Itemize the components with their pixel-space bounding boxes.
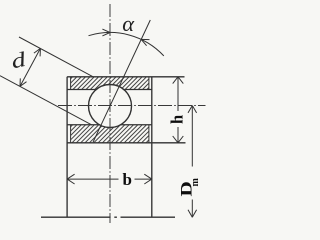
arc arrow at centerline [102, 29, 110, 32]
Dm dimension line lower [191, 200, 193, 218]
inner ring hatching [71, 125, 149, 143]
Dm dimension line upper [191, 106, 193, 167]
bearing outline top edge + h extension [67, 76, 184, 78]
h dimension line [177, 77, 179, 111]
axis centerline [41, 216, 111, 218]
ball diameter tangent line upper [19, 37, 93, 77]
arc arrow at contact line [141, 39, 146, 45]
left edge extended to axis [66, 77, 68, 217]
b arrow right [144, 174, 152, 179]
inner ring raceway line [67, 124, 152, 126]
svg-text:α: α [122, 11, 135, 36]
ball [89, 85, 132, 128]
b arrow left [67, 179, 75, 184]
outer ring face lines [70, 77, 72, 90]
outer ring raceway line [67, 89, 152, 91]
bearing outline bottom edge + h extension [67, 142, 185, 144]
Dm arrow up [188, 106, 192, 113]
outer ring hatching [71, 77, 149, 90]
angle dimension arc [89, 32, 164, 55]
horizontal centerline [58, 105, 206, 107]
d dimension arrow [20, 48, 40, 86]
svg-text:h: h [167, 115, 186, 124]
vertical centerline [109, 4, 111, 223]
h arrow up [173, 77, 178, 84]
b dimension line [67, 178, 118, 180]
right edge extended to axis [151, 77, 153, 217]
h arrow down [178, 136, 183, 143]
contact angle line [93, 20, 150, 142]
Dm arrow down [192, 210, 196, 217]
svg-text:m: m [190, 177, 201, 186]
svg-text:b: b [122, 170, 131, 189]
inner ring face lines [70, 125, 72, 143]
ball diameter tangent line lower [0, 76, 92, 125]
